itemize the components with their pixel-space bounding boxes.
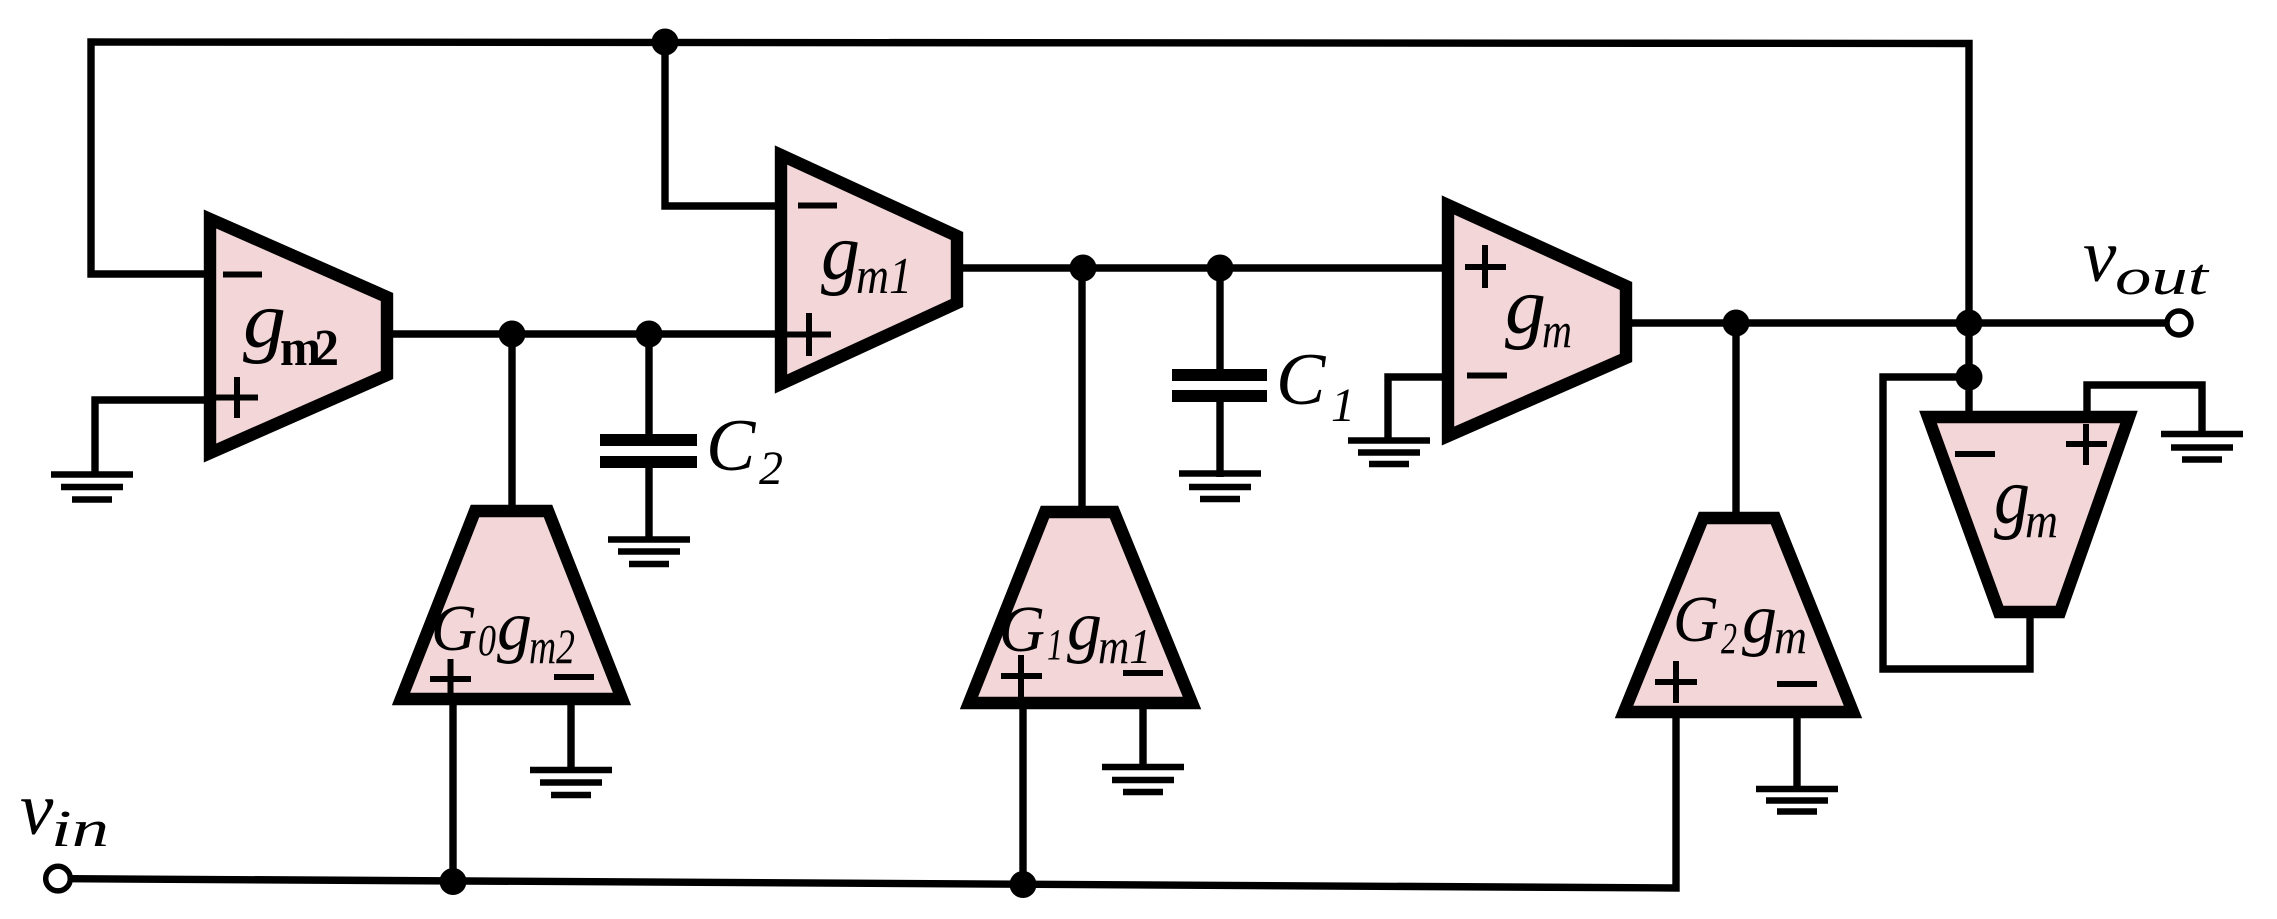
svg-text:m: m <box>1774 608 1807 664</box>
svg-text:m2: m2 <box>529 618 575 674</box>
svg-text:G: G <box>999 593 1045 666</box>
svg-text:2: 2 <box>314 320 339 377</box>
svg-text:g: g <box>1505 263 1546 351</box>
svg-text:in: in <box>51 801 109 858</box>
svg-text:2: 2 <box>1721 614 1737 663</box>
svg-text:g: g <box>821 209 860 297</box>
svg-text:0: 0 <box>478 616 496 665</box>
svg-text:m: m <box>1542 302 1572 358</box>
svg-text:2: 2 <box>759 442 783 495</box>
svg-text:m1: m1 <box>856 248 912 305</box>
svg-text:g: g <box>1742 581 1777 658</box>
svg-text:v: v <box>20 768 54 851</box>
svg-text:C: C <box>706 405 757 487</box>
svg-text:g: g <box>1067 588 1102 665</box>
svg-text:v: v <box>2083 215 2117 298</box>
svg-text:m1: m1 <box>1098 618 1151 674</box>
svg-text:m: m <box>2025 492 2058 548</box>
svg-text:C: C <box>1276 339 1327 421</box>
svg-text:1: 1 <box>1047 620 1063 669</box>
svg-text:out: out <box>2115 249 2210 306</box>
svg-text:G: G <box>431 592 477 665</box>
svg-text:g: g <box>497 588 532 665</box>
svg-text:1: 1 <box>1331 379 1355 432</box>
svg-text:G: G <box>1673 583 1719 656</box>
